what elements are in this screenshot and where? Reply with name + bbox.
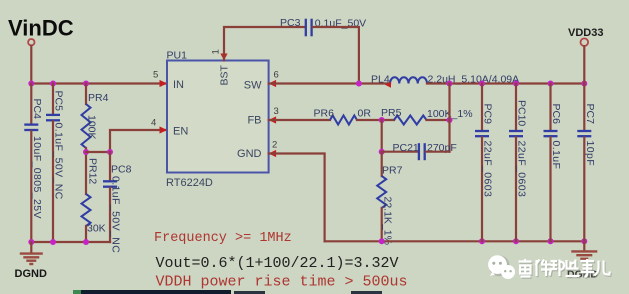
svg-text:PC4: PC4	[31, 99, 43, 120]
node PR5/PC21/riser	[447, 117, 453, 123]
svg-text:DGND: DGND	[15, 268, 47, 280]
wire PR5 right lead	[427, 119, 450, 121]
ground right	[567, 241, 598, 280]
svg-text:PU1: PU1	[167, 50, 188, 62]
svg-text:PR12: PR12	[87, 158, 99, 184]
svg-text:5: 5	[153, 70, 158, 81]
wire GND pin path	[269, 154, 325, 242]
node PR4 top	[83, 81, 89, 87]
capacitor PC8	[103, 152, 132, 253]
inductor PL4	[371, 73, 519, 88]
svg-text:GND: GND	[237, 148, 262, 160]
node PR7 bottom	[379, 238, 385, 244]
wire FB row	[269, 119, 330, 121]
wire left input rail	[31, 82, 166, 84]
resistor PR5	[381, 107, 473, 125]
node FB divider	[379, 117, 385, 123]
svg-text:IN: IN	[173, 79, 184, 91]
wire SW output rail	[269, 82, 390, 84]
capacitor PC4	[24, 84, 43, 243]
pin 6 arrow SW	[269, 80, 277, 87]
char jian	[536, 260, 552, 277]
svg-text:22uF_0603: 22uF_0603	[482, 141, 494, 198]
wire EN branch horizontal	[86, 151, 110, 153]
char ying	[519, 259, 532, 277]
char shi	[581, 259, 595, 277]
svg-text:PC8: PC8	[111, 163, 132, 175]
node PR4/PR12/EN tap	[83, 149, 89, 155]
capacitor PC6	[544, 84, 563, 242]
svg-text:PL4: PL4	[371, 73, 390, 85]
svg-text:2: 2	[272, 140, 277, 151]
wire Vout rail	[427, 82, 584, 84]
node PC21 branch	[379, 149, 385, 155]
pin 5 arrow IN	[160, 80, 168, 87]
wire PR6 to FB node	[357, 119, 394, 121]
svg-text:PC10: PC10	[516, 100, 528, 126]
capacitor PC7	[577, 84, 596, 242]
char xie	[566, 260, 580, 277]
svg-text:PC7: PC7	[584, 104, 596, 125]
svg-text:10pF: 10pF	[584, 141, 596, 167]
svg-text:22.1K_1%: 22.1K_1%	[381, 197, 393, 245]
node PC10 bottom	[513, 238, 519, 244]
wire FB node drop	[381, 120, 383, 152]
node PC3 drop	[356, 81, 362, 87]
resistor PR7	[377, 152, 402, 245]
svg-text:VDD33: VDD33	[568, 27, 603, 39]
svg-text:PC6: PC6	[550, 104, 562, 125]
svg-text:6: 6	[274, 70, 279, 81]
resistor PR4	[82, 84, 109, 153]
terminal circle VDD33	[581, 38, 589, 46]
node PC10 top	[513, 81, 519, 87]
watermark logo bubbles	[488, 255, 515, 279]
node PC5 top	[50, 81, 56, 87]
wire PC3 right to SW rail	[313, 27, 359, 84]
svg-text:100K: 100K	[86, 115, 98, 140]
svg-text:PC9: PC9	[482, 104, 494, 125]
svg-text:4: 4	[151, 118, 156, 129]
svg-text:PR5: PR5	[381, 107, 402, 119]
svg-text:PC5: PC5	[53, 91, 65, 112]
resistor PR6	[314, 107, 372, 124]
svg-text:PC21: PC21	[393, 142, 419, 154]
node EN/PC8 junction	[107, 149, 113, 155]
pin 3 arrow FB	[269, 116, 277, 123]
svg-text:30K: 30K	[87, 223, 106, 235]
terminal circle VinDC	[28, 39, 34, 45]
watermark text 硬件那些事儿 (drawn strokes)	[520, 260, 611, 278]
pin 4 arrow EN	[160, 126, 168, 133]
svg-text:Vout=0.6*(1+100/22.1)=3.32V: Vout=0.6*(1+100/22.1)=3.32V	[156, 255, 399, 272]
node VinDC rail / PC4	[28, 81, 34, 87]
capacitor PC10	[509, 84, 528, 242]
svg-text:PR6: PR6	[314, 107, 335, 119]
op IC PU1 RT6224D body	[166, 50, 269, 189]
node PR12 bottom	[83, 239, 89, 245]
capacitor PC9	[475, 84, 494, 242]
node PC6 bottom	[548, 238, 554, 244]
capacitor PC21	[393, 142, 457, 160]
node PR5 riser top	[447, 81, 453, 87]
svg-text:Frequency >= 1MHz: Frequency >= 1MHz	[154, 231, 292, 246]
wire left ground rail	[31, 241, 110, 243]
node PC9 bottom	[479, 238, 485, 244]
node PC9 top	[479, 81, 485, 87]
svg-text:1: 1	[211, 49, 222, 54]
ground DGND	[15, 242, 47, 280]
svg-text:EN: EN	[173, 126, 188, 138]
node PC6 top	[548, 81, 554, 87]
svg-text:BST: BST	[219, 64, 231, 85]
bottom strip artifacts	[73, 290, 382, 294]
svg-text:0.1uF_50V_NC: 0.1uF_50V_NC	[110, 176, 122, 253]
node PC7/ground bottom	[581, 238, 587, 244]
wire BST loop	[224, 27, 305, 61]
svg-text:0.1uF: 0.1uF	[550, 141, 562, 170]
wire VDD33 stub	[583, 46, 585, 83]
capacitor PC5	[46, 84, 65, 243]
node PC4 bottom	[28, 239, 34, 245]
pin 1 arrow BST	[220, 54, 227, 61]
svg-text:PC3: PC3	[280, 17, 301, 29]
node PC5 bottom	[50, 239, 56, 245]
node PC7/VDD33 top	[581, 81, 587, 87]
wire PC21 left	[382, 151, 418, 153]
char er	[595, 261, 610, 276]
svg-text:0R: 0R	[358, 107, 372, 119]
wire EN riser	[110, 130, 166, 152]
wire riser to Vout rail	[448, 84, 450, 152]
svg-text:22uF_0603: 22uF_0603	[516, 141, 528, 198]
capacitor PC3	[280, 17, 366, 36]
pin 2 arrow GND	[269, 150, 277, 157]
wire bottom ground rail	[325, 240, 585, 242]
svg-text:PR7: PR7	[382, 164, 403, 176]
svg-text:VinDC: VinDC	[8, 16, 74, 41]
wire PC21 right	[426, 151, 450, 153]
svg-text:3: 3	[274, 106, 279, 117]
resistor PR12	[82, 152, 106, 242]
svg-text:FB: FB	[247, 115, 261, 127]
svg-text:VDDH power rise time > 500us: VDDH power rise time > 500us	[156, 273, 408, 290]
svg-text:10uF_0805_25V: 10uF_0805_25V	[31, 136, 43, 219]
char na	[550, 260, 565, 277]
svg-text:RT6224D: RT6224D	[166, 177, 213, 189]
svg-text:SW: SW	[244, 80, 262, 92]
svg-text:0.1uF_50V_NC: 0.1uF_50V_NC	[53, 123, 65, 200]
svg-text:PR4: PR4	[88, 92, 109, 104]
wire VinDC stub	[30, 46, 32, 84]
